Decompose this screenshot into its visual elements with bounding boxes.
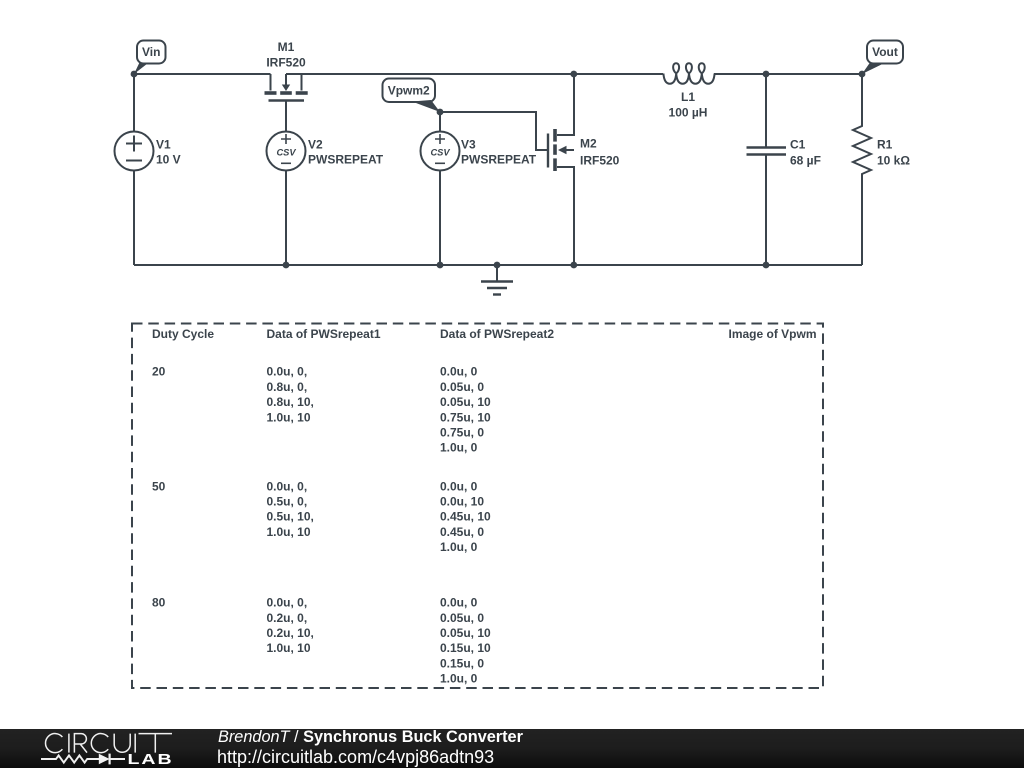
svg-text:M2: M2 [580,137,597,151]
svg-text:CSV: CSV [276,147,296,157]
svg-text:0.05u, 10: 0.05u, 10 [440,626,491,640]
svg-text:1.0u, 10: 1.0u, 10 [267,525,311,539]
svg-text:LAB: LAB [128,750,174,767]
svg-text:CSV: CSV [430,147,450,157]
svg-text:0.15u, 0: 0.15u, 0 [440,656,484,670]
svg-text:20: 20 [152,365,166,379]
svg-text:50: 50 [152,479,166,493]
svg-text:100 µH: 100 µH [669,106,708,120]
svg-text:0.0u, 0,: 0.0u, 0, [267,479,308,493]
svg-text:M1: M1 [278,40,295,54]
svg-text:0.2u, 10,: 0.2u, 10, [267,626,314,640]
svg-text:0.0u, 10: 0.0u, 10 [440,495,484,509]
svg-text:0.5u, 0,: 0.5u, 0, [267,495,308,509]
svg-text:0.0u, 0: 0.0u, 0 [440,479,478,493]
svg-text:0.0u, 0,: 0.0u, 0, [267,365,308,379]
svg-text:PWSREPEAT: PWSREPEAT [308,153,384,167]
svg-text:10 kΩ: 10 kΩ [877,153,910,167]
svg-text:0.75u, 0: 0.75u, 0 [440,426,484,440]
svg-text:0.45u, 10: 0.45u, 10 [440,510,491,524]
svg-text:0.8u, 10,: 0.8u, 10, [267,395,314,409]
svg-text:0.8u, 0,: 0.8u, 0, [267,380,308,394]
svg-text:0.75u, 10: 0.75u, 10 [440,410,491,424]
svg-text:V2: V2 [308,137,323,151]
svg-text:Vpwm2: Vpwm2 [388,84,430,98]
svg-text:0.0u, 0,: 0.0u, 0, [267,596,308,610]
svg-text:Vout: Vout [872,45,898,59]
svg-text:0.2u, 0,: 0.2u, 0, [267,611,308,625]
svg-text:0.05u, 10: 0.05u, 10 [440,395,491,409]
svg-text:R1: R1 [877,137,893,151]
svg-text:Image of Vpwm: Image of Vpwm [728,327,816,341]
svg-text:1.0u, 10: 1.0u, 10 [267,641,311,655]
svg-text:C1: C1 [790,137,806,151]
svg-text:0.05u, 0: 0.05u, 0 [440,611,484,625]
svg-text:10 V: 10 V [156,153,181,167]
svg-text:1.0u, 0: 1.0u, 0 [440,540,478,554]
svg-text:0.15u, 10: 0.15u, 10 [440,641,491,655]
svg-text:0.45u, 0: 0.45u, 0 [440,525,484,539]
svg-text:0.0u, 0: 0.0u, 0 [440,365,478,379]
svg-text:V1: V1 [156,137,171,151]
svg-text:Vin: Vin [142,45,160,59]
svg-text:L1: L1 [681,90,695,104]
svg-text:Duty Cycle: Duty Cycle [152,327,214,341]
svg-text:0.5u, 10,: 0.5u, 10, [267,510,314,524]
svg-text:1.0u, 10: 1.0u, 10 [267,410,311,424]
svg-text:1.0u, 0: 1.0u, 0 [440,672,478,686]
svg-text:68 µF: 68 µF [790,153,821,167]
svg-text:Data of PWSrepeat2: Data of PWSrepeat2 [440,327,554,341]
svg-text:PWSREPEAT: PWSREPEAT [461,153,537,167]
svg-text:0.0u, 0: 0.0u, 0 [440,596,478,610]
svg-text:IRF520: IRF520 [580,154,620,168]
svg-text:Data of PWSrepeat1: Data of PWSrepeat1 [267,327,381,341]
svg-text:IRF520: IRF520 [266,56,306,70]
svg-text:1.0u, 0: 1.0u, 0 [440,441,478,455]
svg-text:80: 80 [152,596,166,610]
svg-text:0.05u, 0: 0.05u, 0 [440,380,484,394]
svg-text:V3: V3 [461,137,476,151]
